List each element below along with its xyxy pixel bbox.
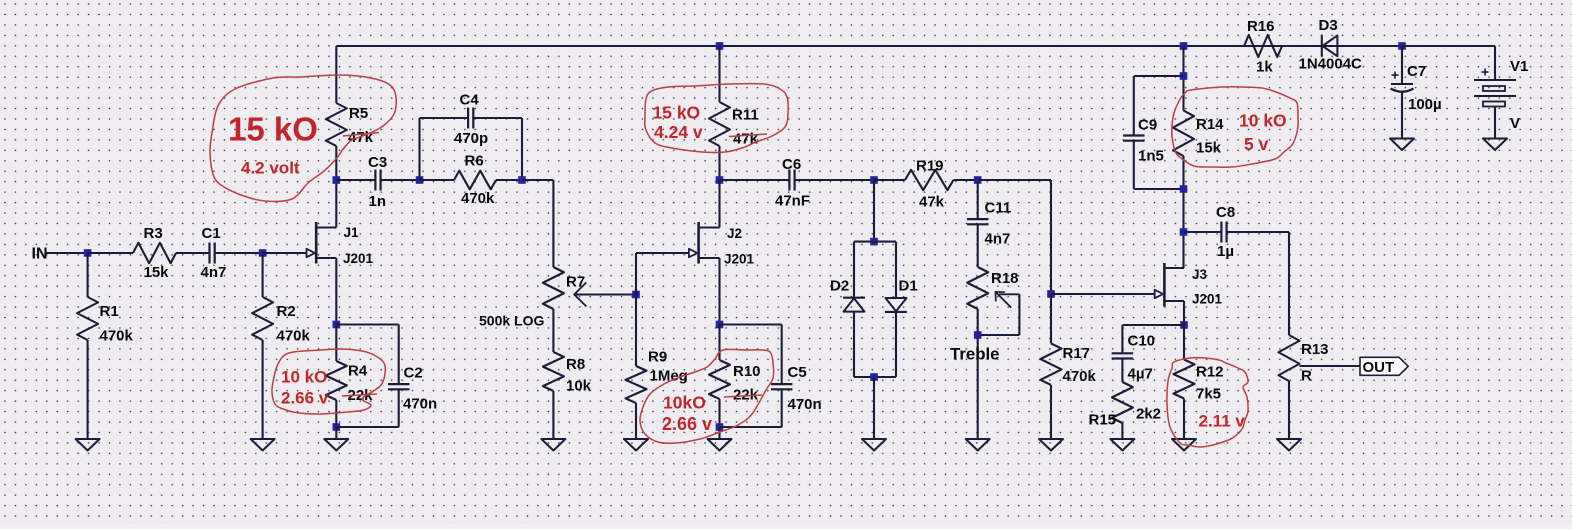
svg-text:47k: 47k <box>733 131 759 148</box>
svg-text:D3: D3 <box>1319 17 1338 34</box>
junction R7 wiper node <box>632 291 640 299</box>
wire J2 source <box>718 258 720 325</box>
wire R6 to R7 <box>522 180 553 267</box>
svg-text:C6: C6 <box>782 156 801 173</box>
svg-text:470n: 470n <box>403 396 437 413</box>
svg-text:C4: C4 <box>460 92 480 109</box>
ground R9 <box>624 439 648 451</box>
junction rail R14 <box>1180 42 1188 50</box>
svg-text:47k: 47k <box>919 194 945 211</box>
svg-text:R5: R5 <box>349 105 368 122</box>
wire C1 to node B <box>215 252 263 254</box>
node IN <box>32 246 48 263</box>
ground R8 <box>541 439 565 451</box>
svg-text:1k: 1k <box>1256 59 1273 76</box>
svg-text:R10: R10 <box>733 363 761 380</box>
junction diode box top <box>870 238 878 246</box>
ground diodes <box>862 439 886 451</box>
wiper R7 <box>574 283 636 307</box>
wire node to R17 <box>978 180 1051 294</box>
svg-text:R12: R12 <box>1196 364 1224 381</box>
svg-text:470k: 470k <box>277 328 311 345</box>
svg-text:5 v: 5 v <box>1244 134 1269 154</box>
junction node B <box>259 249 267 257</box>
ground R4 <box>324 439 348 451</box>
wire R3 to C1 <box>176 252 210 254</box>
junction node A <box>84 249 92 257</box>
svg-text:470p: 470p <box>454 130 488 147</box>
ground V1 <box>1483 139 1507 151</box>
junction J3 gate node <box>1047 290 1055 298</box>
wire J1 drain <box>335 180 337 228</box>
capacitor C7 <box>1391 46 1442 139</box>
svg-text:J3: J3 <box>1192 267 1208 282</box>
resistor R6 <box>420 153 523 208</box>
capacitor C4 <box>420 92 523 181</box>
capacitor C3 <box>336 154 419 210</box>
resistor R8 <box>543 309 592 439</box>
svg-text:C3: C3 <box>368 154 387 171</box>
svg-text:15k: 15k <box>1196 140 1222 157</box>
svg-text:1n: 1n <box>369 193 387 210</box>
red circle around R12 <box>1167 358 1248 447</box>
junction C6 right <box>870 176 878 184</box>
svg-text:470k: 470k <box>461 190 495 207</box>
svg-text:15 kO: 15 kO <box>228 111 318 148</box>
red note 10kO / 2.66 v mid <box>662 393 712 435</box>
resistor R9 <box>626 295 688 440</box>
ground C7 <box>1390 139 1414 151</box>
ground R2 <box>251 439 275 451</box>
junction R18 wiper tie <box>974 331 982 339</box>
resistor R5 <box>326 46 374 180</box>
svg-text:R6: R6 <box>465 153 484 170</box>
capacitor C11 <box>967 180 1011 267</box>
svg-text:2.66 v: 2.66 v <box>662 414 712 434</box>
svg-text:R2: R2 <box>277 303 296 320</box>
capacitor C10 <box>1112 325 1184 383</box>
wire diode box bottom <box>854 376 896 378</box>
resistor R13 <box>1279 335 1329 439</box>
resistor R12 <box>1174 325 1224 439</box>
junction C9 bottom <box>1180 185 1188 193</box>
ground R10 <box>708 439 732 451</box>
resistor R17 <box>1041 294 1097 439</box>
svg-text:10 kO: 10 kO <box>1239 111 1287 131</box>
junction R10 bottom <box>716 423 724 431</box>
svg-text:2.66 v: 2.66 v <box>281 389 329 408</box>
wire node A to R3 <box>88 252 133 254</box>
red circle around R11 <box>645 84 788 153</box>
svg-text:100µ: 100µ <box>1408 96 1442 113</box>
junction R6 right <box>518 176 526 184</box>
label 500k LOG <box>479 313 544 329</box>
red note 10 kO / 5 v <box>1239 111 1287 155</box>
svg-text:R14: R14 <box>1196 116 1224 133</box>
red note 2.11 v <box>1199 412 1246 431</box>
wire gate node to J3 <box>1051 293 1163 295</box>
svg-text:15 kO: 15 kO <box>653 103 701 123</box>
transistor J1 <box>307 222 374 266</box>
junction C2 branch <box>333 321 341 329</box>
wire J2 drain <box>718 180 720 228</box>
svg-text:470k: 470k <box>1063 368 1097 385</box>
svg-text:J2: J2 <box>727 226 742 241</box>
svg-text:500k LOG: 500k LOG <box>479 313 544 329</box>
wire top rail <box>336 45 1402 47</box>
red circle around R10 <box>640 349 774 443</box>
potentiometer R18 <box>967 267 1018 439</box>
svg-text:1µ: 1µ <box>1217 243 1234 260</box>
ground R1 <box>76 439 100 451</box>
svg-text:D1: D1 <box>899 278 918 295</box>
wire diode box to ground <box>873 377 875 439</box>
svg-text:C1: C1 <box>202 225 221 242</box>
svg-text:470k: 470k <box>100 328 134 345</box>
svg-text:10kO: 10kO <box>663 393 706 413</box>
junction J1 drain node <box>333 176 341 184</box>
svg-text:R15: R15 <box>1089 412 1117 429</box>
wire J1 source <box>335 258 337 325</box>
capacitor C1 <box>201 225 227 281</box>
red note 15 kO / 4.24 v <box>653 103 703 143</box>
svg-text:C2: C2 <box>404 365 423 382</box>
ground R18 <box>966 439 990 451</box>
svg-text:C11: C11 <box>985 200 1012 217</box>
svg-text:1N4004C: 1N4004C <box>1299 56 1363 73</box>
ground R13 <box>1277 439 1301 451</box>
svg-text:R4: R4 <box>348 363 368 380</box>
capacitor C9 <box>1123 76 1183 189</box>
svg-text:10 kO: 10 kO <box>281 368 327 387</box>
svg-text:R8: R8 <box>566 356 585 373</box>
svg-text:R18: R18 <box>991 270 1019 287</box>
svg-text:D2: D2 <box>830 278 849 295</box>
svg-text:4n7: 4n7 <box>985 231 1011 248</box>
junction J2 drain node <box>716 176 724 184</box>
junction C8 node <box>1180 228 1188 236</box>
capacitor C8 <box>1184 204 1290 260</box>
svg-text:R: R <box>1301 368 1312 385</box>
svg-text:R7: R7 <box>566 274 585 291</box>
wire R4 to ground <box>335 427 337 439</box>
resistor R2 <box>252 253 310 439</box>
resistor R19 <box>874 158 978 211</box>
wiper R18 <box>978 292 1020 335</box>
svg-text:R3: R3 <box>144 225 163 242</box>
red note 10 kO / 2.66 v left <box>281 368 329 408</box>
svg-text:OUT: OUT <box>1363 359 1395 376</box>
capacitor C6 <box>720 156 875 210</box>
red note 15 kO / 4.2 volt <box>228 111 318 178</box>
wire IN to node A <box>46 252 88 254</box>
voltage source V1 <box>1474 58 1528 139</box>
svg-text:15k: 15k <box>144 264 170 281</box>
label Treble <box>950 345 999 364</box>
transistor J3 <box>1155 263 1223 307</box>
port OUT <box>1360 357 1408 376</box>
svg-text:C10: C10 <box>1128 333 1156 350</box>
svg-text:Treble: Treble <box>950 345 999 364</box>
resistor R16 <box>1244 18 1282 76</box>
svg-text:C7: C7 <box>1407 63 1426 80</box>
wire R13 to OUT <box>1300 365 1361 367</box>
junction C10 branch <box>1180 321 1188 329</box>
ground R15 <box>1110 439 1134 451</box>
red circle around R14 <box>1172 87 1298 168</box>
svg-text:J201: J201 <box>724 252 755 267</box>
svg-text:4n7: 4n7 <box>201 264 227 281</box>
svg-text:R1: R1 <box>100 303 119 320</box>
resistor R3 <box>133 225 176 281</box>
svg-text:2k2: 2k2 <box>1136 406 1161 423</box>
wire C8 to R13 <box>1288 232 1290 335</box>
wire C6 node to diode box <box>873 180 875 242</box>
svg-text:10k: 10k <box>566 378 592 395</box>
svg-text:C8: C8 <box>1216 204 1235 221</box>
svg-text:R13: R13 <box>1301 341 1329 358</box>
resistor R14 <box>1173 46 1224 268</box>
junction C7 top <box>1398 42 1406 50</box>
red strike R4 22k <box>342 394 377 396</box>
diode D2 <box>830 242 865 377</box>
svg-text:47nF: 47nF <box>775 193 810 210</box>
capacitor C5 <box>720 325 822 428</box>
ground R17 <box>1039 439 1063 451</box>
capacitor C2 <box>336 325 437 428</box>
svg-text:C5: C5 <box>788 364 807 381</box>
resistor R15 <box>1089 382 1162 439</box>
svg-text:IN: IN <box>32 246 48 263</box>
resistor R10 <box>709 325 761 428</box>
svg-text:R17: R17 <box>1063 345 1091 362</box>
svg-text:R16: R16 <box>1247 18 1275 35</box>
resistor R1 <box>77 253 133 439</box>
svg-text:C9: C9 <box>1138 117 1157 134</box>
svg-text:V1: V1 <box>1510 58 1528 75</box>
svg-text:J1: J1 <box>344 225 360 240</box>
resistor R4 <box>326 325 373 428</box>
wire node B to J1 gate <box>263 252 316 254</box>
svg-text:1n5: 1n5 <box>1138 148 1164 165</box>
svg-text:J201: J201 <box>343 251 374 266</box>
red strike R10 22k <box>724 395 762 397</box>
svg-text:R9: R9 <box>648 349 667 366</box>
svg-text:V: V <box>1510 115 1520 132</box>
red circle around R5 <box>210 75 396 201</box>
potentiometer R7 <box>543 267 585 309</box>
svg-text:4.24 v: 4.24 v <box>654 122 703 142</box>
junction C9 top <box>1180 72 1188 80</box>
resistor R11 <box>709 46 759 180</box>
junction C5 branch <box>716 321 724 329</box>
wire diode box top <box>854 241 896 243</box>
junction C11 top <box>974 176 982 184</box>
transistor J2 <box>689 222 755 267</box>
junction C3 right <box>416 176 424 184</box>
red circle around R4 <box>272 349 385 414</box>
svg-text:2.11 v: 2.11 v <box>1199 412 1246 431</box>
junction diode box bottom <box>870 373 878 381</box>
wire wiper to J2 gate <box>636 253 698 295</box>
red strike R5 47k <box>343 133 379 137</box>
svg-text:4µ7: 4µ7 <box>1128 366 1153 383</box>
diode D1 <box>885 242 918 377</box>
svg-text:7k5: 7k5 <box>1196 386 1221 403</box>
wire rail to V1 <box>1402 46 1495 80</box>
svg-text:R19: R19 <box>916 158 944 175</box>
red strike R11 47k <box>729 134 767 137</box>
diode D3 <box>1299 17 1363 73</box>
junction rail R11 <box>716 42 724 50</box>
svg-text:47k: 47k <box>348 129 374 146</box>
wire J3 source <box>1183 301 1185 325</box>
junction R4 bottom <box>333 423 341 431</box>
svg-text:J201: J201 <box>1192 292 1223 307</box>
svg-text:470n: 470n <box>788 396 822 413</box>
svg-text:R11: R11 <box>732 107 759 124</box>
svg-text:4.2 volt: 4.2 volt <box>241 159 300 178</box>
ground R12 <box>1172 439 1196 451</box>
wire R10 to ground <box>718 427 720 439</box>
